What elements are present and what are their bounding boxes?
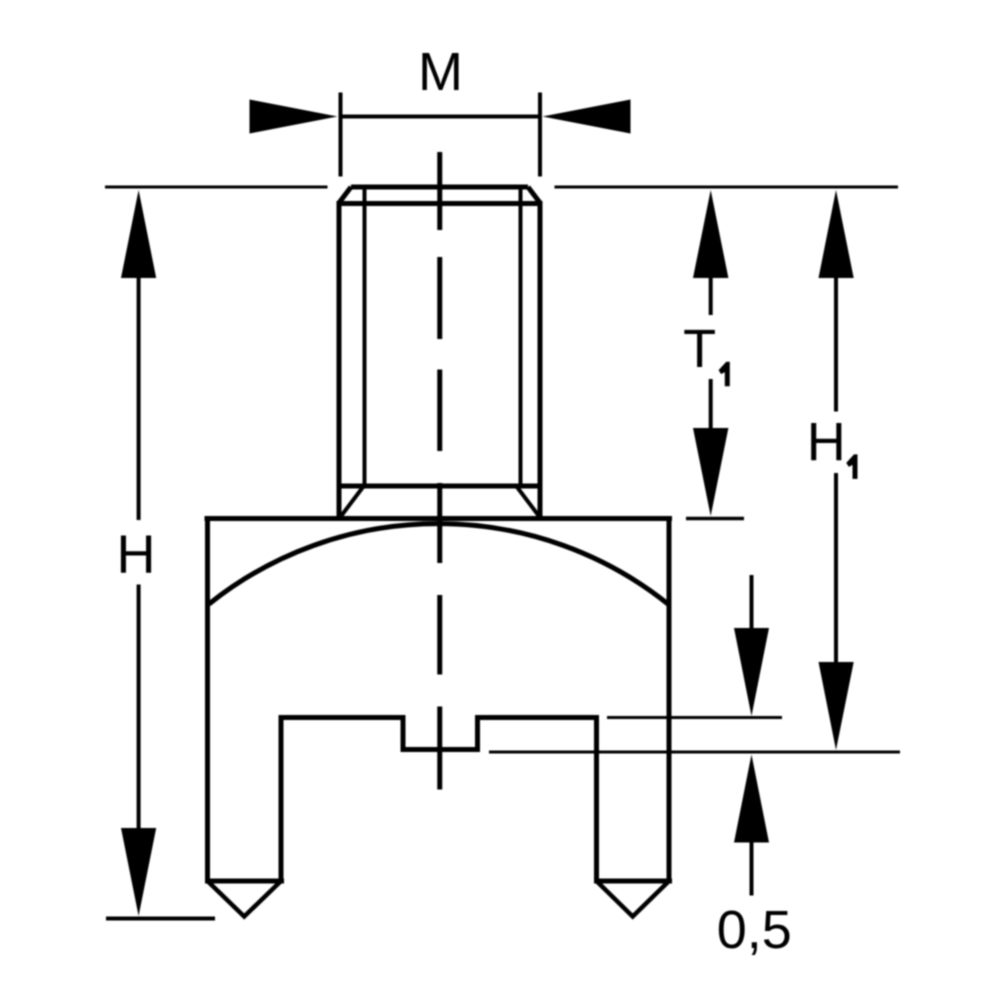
svg-text:H: H (807, 412, 846, 472)
svg-text:M: M (418, 42, 463, 102)
svg-text:H: H (117, 525, 156, 585)
svg-text:T: T (683, 319, 716, 379)
svg-text:0,5: 0,5 (717, 900, 792, 960)
